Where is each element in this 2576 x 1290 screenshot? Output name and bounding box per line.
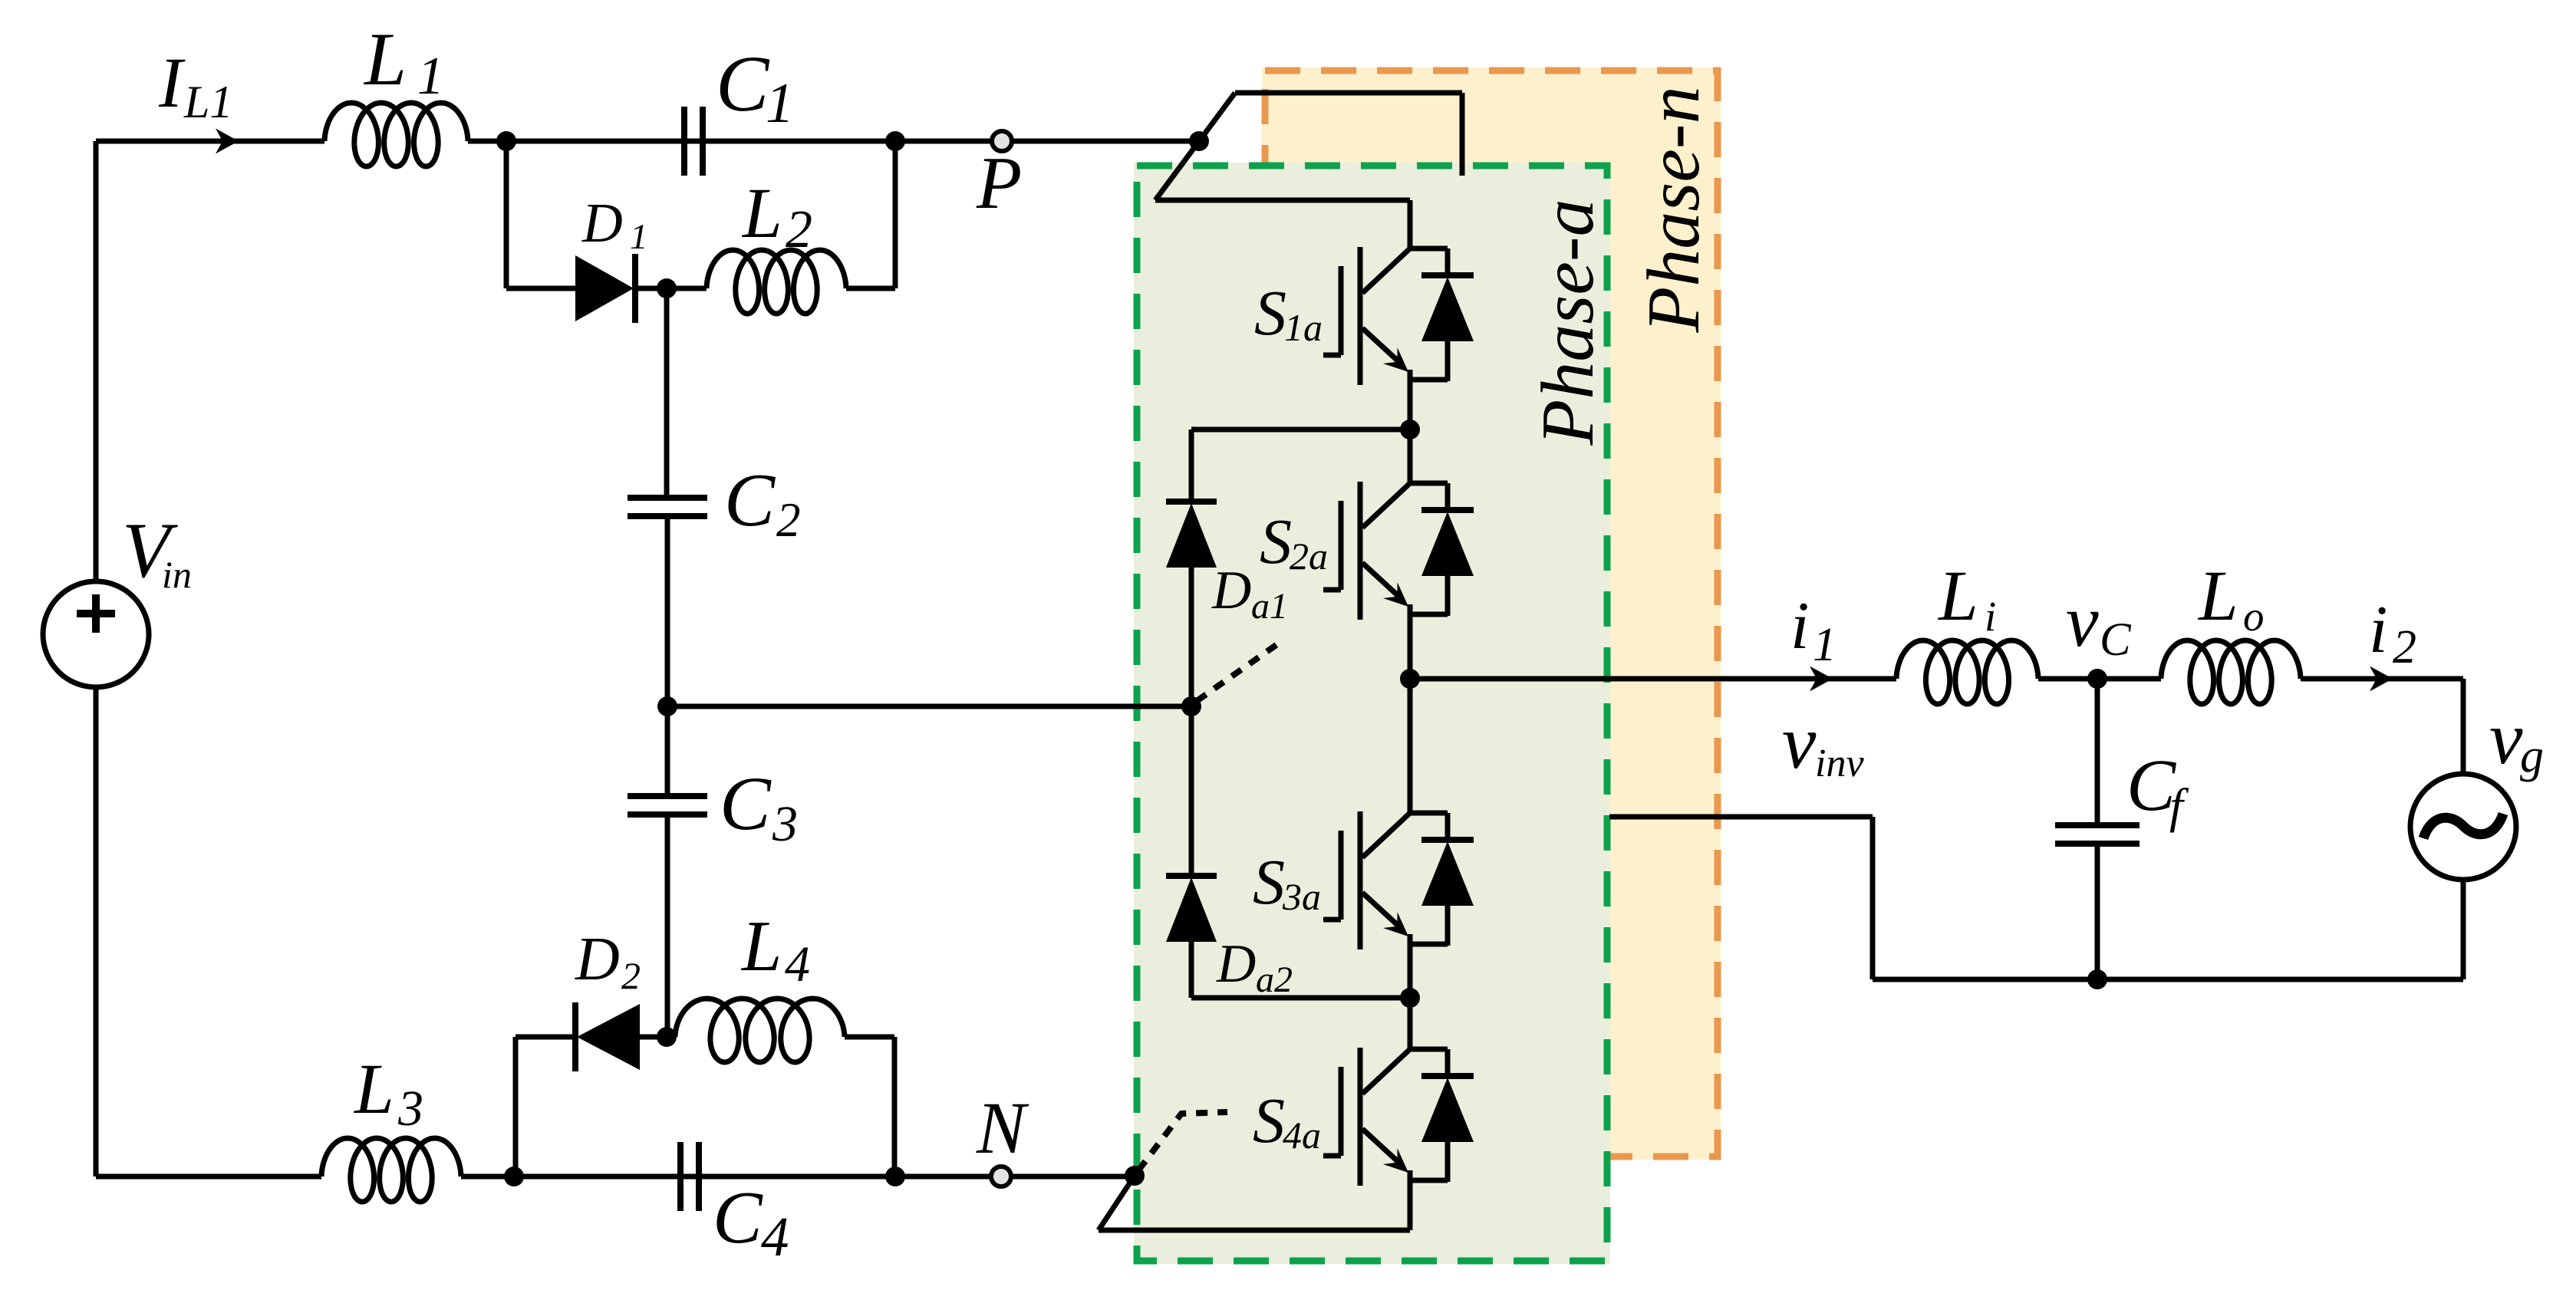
label C2 <box>724 459 801 547</box>
diode DS3a (antiparallel) <box>1410 813 1474 946</box>
svg-text:3: 3 <box>397 1081 423 1137</box>
capacitor C4 <box>680 1142 699 1211</box>
svg-text:a2: a2 <box>1256 959 1293 1000</box>
label L1 <box>363 18 444 106</box>
wire junction to Da1 <box>1191 429 1410 503</box>
label S2a <box>1260 506 1328 578</box>
svg-text:inv: inv <box>1815 742 1864 785</box>
svg-text:v: v <box>2066 580 2099 662</box>
svg-text:P: P <box>976 142 1022 224</box>
arrow i2 current direction <box>2370 666 2393 692</box>
label Da1 <box>1211 561 1288 627</box>
svg-text:2: 2 <box>786 200 812 259</box>
wire midpoint down to C3 <box>665 706 670 796</box>
inductor L3 <box>321 1138 461 1202</box>
label Li <box>1937 557 1996 640</box>
label Vin <box>122 507 192 596</box>
inductor L4 <box>640 999 894 1062</box>
svg-text:i: i <box>1790 589 1809 663</box>
svg-text:i: i <box>2369 593 2387 667</box>
label i2 <box>2369 593 2416 673</box>
svg-text:g: g <box>2520 730 2544 782</box>
inductor Li <box>1896 640 2038 704</box>
svg-text:L: L <box>363 18 407 101</box>
wire C3 down to D2 node <box>665 814 670 1037</box>
svg-text:Phase-n: Phase-n <box>1632 86 1715 333</box>
svg-text:2: 2 <box>776 493 801 547</box>
wire left rail lower <box>94 687 99 1176</box>
node junction clamp midpoint <box>1181 696 1201 716</box>
svg-text:in: in <box>162 553 192 596</box>
svg-text:v: v <box>2489 697 2523 780</box>
svg-text:o: o <box>2243 593 2265 640</box>
wire clamp node down to Da2 <box>1189 706 1194 877</box>
wire top rail P left of L1 <box>96 139 324 144</box>
svg-text:L: L <box>353 1050 394 1129</box>
diode DS1a (antiparallel) <box>1410 248 1474 381</box>
node Cf bottom junction <box>2087 969 2107 989</box>
svg-text:4: 4 <box>785 936 810 992</box>
diode DS4a (antiparallel) <box>1410 1049 1474 1182</box>
wire phase-a top rail <box>1155 200 1410 250</box>
diode Da2 (clamp) <box>1166 876 1217 942</box>
wire Li to vC node <box>2038 676 2161 682</box>
label S1a <box>1254 278 1323 349</box>
svg-text:1: 1 <box>1813 619 1836 671</box>
svg-text:3: 3 <box>772 796 798 852</box>
svg-text:a1: a1 <box>1251 586 1288 627</box>
diode Da1 (clamp) <box>1166 502 1217 568</box>
svg-text:C: C <box>716 40 770 128</box>
transistor S2a (IGBT) <box>1323 482 1410 620</box>
svg-text:N: N <box>976 1087 1029 1169</box>
node P (open terminal) <box>992 131 1012 151</box>
svg-text:L: L <box>2197 557 2238 636</box>
label Cf <box>2126 744 2189 833</box>
wire C2 to midpoint <box>665 516 670 706</box>
capacitor C2 <box>628 498 707 516</box>
svg-text:1a: 1a <box>1284 306 1323 349</box>
svg-text:D: D <box>1216 934 1256 994</box>
wire from C1 left node down to D1 <box>506 141 575 288</box>
svg-text:L: L <box>1937 557 1978 636</box>
wire bottom rail N left of L3 <box>96 1174 321 1180</box>
svg-text:1: 1 <box>766 72 794 135</box>
label vC <box>2066 580 2132 666</box>
wire phase-n top rail <box>1235 93 1462 176</box>
wire L2 right up to top rail <box>893 141 898 288</box>
wire Lo to vg <box>2301 679 2463 774</box>
wire bus slash diagonal at P <box>1155 93 1235 200</box>
wire S1a emitter to S2a collector <box>1408 380 1413 483</box>
svg-text:S: S <box>1254 278 1286 349</box>
svg-text:Phase-a: Phase-a <box>1527 199 1609 446</box>
dotted indicator at N slash <box>1138 1112 1227 1170</box>
dotted indicator at clamp node <box>1197 644 1277 701</box>
wire vg bottom to Cf bottom <box>1873 880 2463 979</box>
wire D1 node down to C2 <box>664 288 670 499</box>
svg-text:i: i <box>1985 593 1996 640</box>
capacitor C1 <box>684 107 703 176</box>
svg-text:1: 1 <box>417 47 444 106</box>
svg-text:2: 2 <box>2393 621 2416 673</box>
label L2 <box>741 174 812 259</box>
capacitor Cf <box>2055 679 2140 979</box>
wire vinv from phase box <box>1609 817 1873 979</box>
node junction bottom-right of C4 <box>885 1167 905 1186</box>
label Lo <box>2197 557 2265 640</box>
svg-text:S: S <box>1253 1085 1285 1157</box>
node junction D1 cathode <box>657 278 677 298</box>
label C3 <box>720 761 798 852</box>
label Phase-a <box>1527 199 1609 446</box>
svg-text:4a: 4a <box>1283 1114 1321 1157</box>
svg-text:D: D <box>581 192 623 254</box>
node vC <box>2087 669 2107 689</box>
svg-text:L: L <box>741 174 782 253</box>
label C4 <box>713 1176 789 1268</box>
wire L4 right down to bottom rail <box>892 1037 898 1176</box>
inductor L1 <box>324 103 468 166</box>
label S3a <box>1253 847 1321 918</box>
wire left rail upper <box>94 141 99 581</box>
svg-text:D: D <box>1211 561 1251 620</box>
svg-text:C: C <box>713 1176 763 1259</box>
label D2 <box>575 926 641 997</box>
transistor S3a (IGBT) <box>1323 811 1410 949</box>
arrow IL1 current direction <box>216 129 239 154</box>
svg-text:C: C <box>2100 614 2132 666</box>
svg-text:f: f <box>2169 778 2189 833</box>
svg-text:2a: 2a <box>1290 535 1328 578</box>
label L3 <box>353 1050 423 1137</box>
wire junction to S4a collector <box>1408 998 1413 1049</box>
label IL1 <box>158 44 232 127</box>
arrow i1 current direction <box>1810 666 1833 692</box>
node junction D2 cathode-L4 <box>657 1027 677 1047</box>
source vg (ac grid) <box>2410 774 2516 880</box>
svg-text:C: C <box>720 761 772 846</box>
wire S2a emitter to output node <box>1408 614 1413 679</box>
node junction bottom-left of C4 <box>504 1167 524 1186</box>
label S4a <box>1253 1085 1321 1157</box>
Phase-n dashed box (orange) <box>1262 67 1721 1160</box>
wire Da2 anode to S3a-S4a junction <box>1191 942 1410 998</box>
wire S4a emitter return <box>1099 1180 1410 1230</box>
transistor S1a (IGBT) <box>1323 247 1410 385</box>
label Phase-n <box>1632 86 1715 333</box>
inductor Lo <box>2161 640 2301 704</box>
svg-text:4: 4 <box>761 1206 789 1268</box>
capacitor C3 <box>628 796 707 814</box>
label Da2 <box>1216 934 1293 1000</box>
wire output node to S3a collector <box>1408 679 1413 813</box>
source Vin (dc voltage source) <box>43 581 149 687</box>
svg-text:L: L <box>740 907 782 986</box>
wire midpoint to clamp diodes <box>667 704 1191 709</box>
svg-text:1: 1 <box>630 217 648 257</box>
svg-text:L1: L1 <box>183 77 232 127</box>
svg-text:S: S <box>1253 847 1285 918</box>
label vg <box>2489 697 2544 782</box>
wire inverter output i1 <box>1410 676 1896 682</box>
Phase-a dashed box (green) <box>1134 163 1610 1264</box>
svg-text:D: D <box>575 926 620 993</box>
diode DS2a (antiparallel) <box>1410 483 1474 616</box>
wire Da1 anode to midpoint junction <box>1189 568 1194 706</box>
junction dot at phase bus slash <box>1189 131 1209 151</box>
wire D2 left branch <box>516 1037 575 1176</box>
label C1 <box>716 40 794 135</box>
svg-text:C: C <box>724 459 776 542</box>
svg-text:3a: 3a <box>1282 875 1321 918</box>
wire bottom rail N right of L3 <box>461 1174 1135 1180</box>
junction dot at N bus slash <box>1125 1166 1145 1186</box>
node junction S3a-S4a <box>1400 988 1420 1008</box>
wire S3a emitter to junction <box>1408 944 1413 998</box>
svg-text:I: I <box>158 44 186 123</box>
node junction top-right of C1 <box>885 131 905 151</box>
wire bus slash diagonal at N <box>1099 1176 1135 1230</box>
wire top rail P right of L1 <box>468 139 1199 144</box>
diode D1 <box>575 254 635 323</box>
label vinv <box>1782 699 1864 785</box>
inductor L2 <box>635 250 895 314</box>
label D1 <box>581 192 648 257</box>
label P <box>976 142 1022 224</box>
svg-text:2: 2 <box>621 954 641 997</box>
label N <box>976 1087 1029 1169</box>
node midpoint of dc-link <box>657 696 677 716</box>
node junction top-left of C1 <box>496 131 516 151</box>
node phase-a output junction <box>1400 669 1420 689</box>
svg-text:v: v <box>1782 699 1817 785</box>
node junction S1a-S2a <box>1400 420 1420 439</box>
label L4 <box>740 907 810 992</box>
node N (open terminal) <box>991 1167 1011 1186</box>
diode D2 <box>575 1002 640 1071</box>
svg-text:S: S <box>1260 506 1292 578</box>
transistor S4a (IGBT) <box>1323 1048 1410 1186</box>
label i1 <box>1790 589 1836 671</box>
